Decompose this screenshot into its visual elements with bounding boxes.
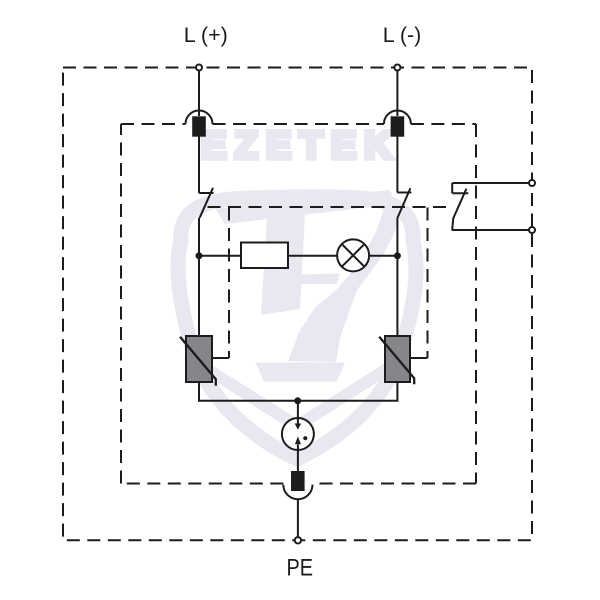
inner dashed enclosure (121, 124, 476, 484)
svg-text:L (-): L (-) (383, 23, 422, 47)
terminal PE (295, 537, 301, 543)
shield outline (178, 197, 416, 459)
fuse F3 arc (283, 485, 312, 500)
varistor RU2 body (385, 336, 410, 382)
fuse F1 arc (186, 111, 213, 125)
wire F2 to switch S2 (396, 136, 398, 193)
module right stub (410, 357, 428, 359)
wire L(-) terminal to fuse F2 (396, 71, 398, 117)
terminal L(+) (196, 65, 202, 71)
watermark EZETEK logo (178, 125, 416, 459)
chevron (207, 369, 387, 426)
wire RU1 to bottom bus (199, 382, 298, 401)
wire node A to resistor R1 (199, 255, 241, 257)
fuse F1 body (192, 116, 206, 136)
remote contact bottom fixed line (452, 229, 529, 231)
lamp H1 cross (342, 244, 365, 267)
lamp H1 (337, 239, 369, 271)
wire H1 to node B (369, 255, 397, 257)
lightning bolt right diagonal (288, 202, 399, 362)
wire node A to varistor RU1 (198, 256, 200, 336)
node A (196, 252, 203, 259)
wire node C to gas discharge tube FV1 (297, 401, 299, 418)
remote contact top fixed line (452, 182, 529, 184)
fuse F2 body (391, 116, 405, 136)
wire RU2 to bottom bus (298, 382, 398, 401)
module left stub (212, 357, 229, 359)
wire L(+) terminal to fuse F1 (198, 71, 200, 117)
remote contact fixed tick (452, 192, 468, 194)
wire F1 to switch S1 (198, 136, 200, 193)
lightning bolt top bar (216, 190, 397, 224)
gas discharge tube FV1 circle (282, 418, 314, 450)
terminal remote bottom (529, 227, 535, 233)
module right dashed edge (427, 208, 429, 359)
FV1 bottom arrow (297, 445, 299, 451)
node B (394, 252, 401, 259)
wire F3 to PE terminal (297, 499, 299, 537)
lightning bolt middle jag (296, 274, 340, 285)
module boundary dashed linkage (208, 206, 453, 208)
switch S2 fixed tick (397, 192, 411, 194)
fuse F3 body (291, 471, 305, 491)
varistor RU1 body (186, 336, 212, 382)
switch S1 blade (200, 188, 213, 218)
node C (294, 397, 301, 404)
varistor RU2 diagonal (379, 337, 414, 385)
varistor RU1 diagonal (180, 337, 216, 386)
lightning bolt left band (261, 214, 305, 315)
switch S2 blade (397, 188, 410, 218)
FV1 gas dot (303, 436, 307, 440)
fuse F2 arc (384, 111, 411, 125)
outer dashed enclosure (63, 68, 532, 541)
wire R1 to lamp H1 (288, 255, 337, 257)
wire node B to varistor RU2 (396, 256, 398, 336)
remote contact top bracket (451, 183, 453, 193)
lightning bolt foot (256, 363, 346, 382)
svg-text:PE: PE (286, 555, 313, 582)
terminal remote top (529, 180, 535, 186)
switch S1 fixed tick (199, 192, 214, 194)
wire S1 to node A (198, 218, 200, 256)
wire S2 to node B (396, 218, 398, 256)
svg-text:EZETEK: EZETEK (201, 125, 400, 167)
resistor R1 (241, 243, 288, 269)
wire FV1 to fuse F3 (297, 450, 299, 471)
svg-text:L (+): L (+) (184, 23, 228, 47)
remote contact blade (452, 189, 466, 231)
module left dashed edge (228, 208, 230, 359)
terminal L(-) (394, 65, 400, 71)
FV1 top arrow (297, 418, 299, 424)
